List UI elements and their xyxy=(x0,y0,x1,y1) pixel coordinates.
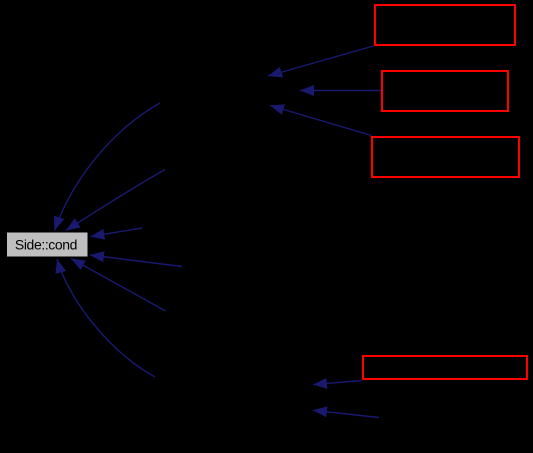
wire edge E5 from hidden node M5 to Side::cond bottom xyxy=(71,259,166,312)
red box R4 xyxy=(363,356,527,379)
wire arrow A5 from hidden node R5 to hidden node M7 xyxy=(313,410,379,417)
red box R1 xyxy=(375,5,515,45)
wire edge E6 from hidden node M7 to Side::cond bottom xyxy=(57,259,155,377)
node Side::cond xyxy=(7,232,89,257)
red box R2 xyxy=(382,71,508,111)
wire arrow A4 from red box R4 to hidden node M7 xyxy=(313,381,362,385)
wire arrow A3 from red box R3 to hidden node M1 xyxy=(270,106,372,136)
wire arrow A1 from red box R1 to hidden node M1 xyxy=(268,46,375,77)
wire edge E1 from hidden node M1 to Side::cond top xyxy=(55,103,161,231)
wire edge E4 from hidden node M4 to Side::cond right xyxy=(90,255,182,267)
svg-text:Side::cond: Side::cond xyxy=(15,237,77,253)
wire edge E2 from hidden node M2 to Side::cond top xyxy=(66,170,165,231)
wire edge E3 from hidden node M3 to Side::cond right xyxy=(91,228,143,237)
wire arrow A2 from red box R2 to hidden node M1 xyxy=(300,90,381,92)
red box R3 xyxy=(372,137,519,177)
